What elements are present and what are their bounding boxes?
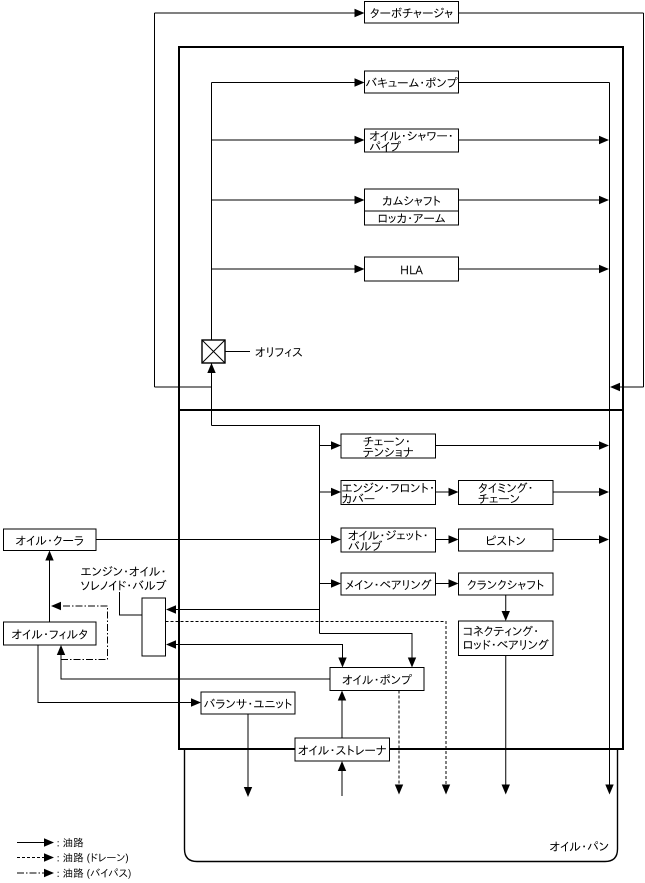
arrow pump drain into pan: [395, 785, 403, 795]
engine enclosure (thick rect): [179, 47, 623, 749]
orifice symbol: [202, 340, 225, 363]
wire chain tensioner branch: [320, 445, 333, 447]
arrow into orifice bottom: [207, 363, 215, 373]
box oil strainer: [295, 738, 390, 761]
arrow chain tensioner into return: [599, 441, 609, 449]
wire engine front cover branch: [320, 491, 333, 493]
arrow head return into oil pan: [605, 785, 613, 795]
arrow into camshaft: [355, 196, 365, 204]
arrow into vacuum pump: [355, 78, 365, 86]
wire balancer drain: [247, 714, 249, 788]
box oil jet valve: [341, 528, 436, 552]
arrow piston into return: [599, 535, 609, 543]
wire turbo feed bottom: [155, 386, 213, 388]
oil pan: [185, 750, 618, 862]
solenoid label leader: [120, 592, 143, 615]
legend dash-dot bypass arrow: [17, 872, 46, 874]
wire pan to strainer: [341, 771, 343, 797]
box piston: [459, 529, 554, 551]
box turbocharger: [365, 2, 459, 24]
arrow into turbocharger: [355, 9, 365, 17]
wire main bearing branch: [320, 583, 333, 585]
legend label oil path drain: [58, 853, 128, 864]
arrow into oil filter bottom: [57, 645, 65, 655]
wire oil cooler to oil jet valve: [96, 539, 333, 541]
arrow conrod drain into pan: [502, 785, 510, 795]
wire main gallery vertical: [319, 426, 321, 634]
arrow into solenoid valve upper: [166, 605, 176, 613]
orifice leader line: [225, 351, 250, 353]
arrow into oil shower pipe: [355, 136, 365, 144]
wire chain tensioner out: [436, 445, 601, 447]
arrow into piston: [449, 535, 459, 543]
legend label oil path bypass: [58, 868, 131, 879]
arrow control into solenoid lower: [166, 640, 176, 648]
wire main bearing to crankshaft: [436, 583, 451, 585]
wire solenoid to pump top: [175, 645, 343, 659]
wire drain from solenoid (dashed): [166, 622, 447, 786]
arrow turbo return into return line: [610, 383, 620, 391]
wire gallery elbow to pump top: [320, 634, 413, 659]
wire HLA branch: [212, 268, 357, 270]
arrow oil shower into return: [599, 136, 609, 144]
arrow HLA into return: [599, 265, 609, 273]
wire pump outlet to filter: [61, 655, 330, 680]
label oil pan: [550, 841, 608, 851]
label orifice: [256, 347, 303, 357]
wire HLA out: [459, 268, 601, 270]
box rocker arm: [365, 211, 459, 225]
wire crankshaft down: [505, 595, 507, 613]
legend solid oil-path arrow: [17, 842, 46, 844]
arrow into connecting rod bearing: [502, 611, 510, 621]
wire camshaft out: [459, 199, 601, 201]
wire oil shower branch: [212, 139, 357, 141]
box camshaft: [365, 189, 459, 211]
box chain tensioner: [341, 434, 436, 458]
box balancer unit: [201, 692, 295, 714]
wire turbo return bottom: [618, 386, 644, 388]
arrow control into pump top: [338, 658, 346, 668]
wire drain from oil pump (dashed): [398, 691, 400, 786]
wire oil shower out: [459, 139, 601, 141]
label engine oil solenoid valve: [81, 566, 166, 590]
arrow into engine front cover: [331, 488, 341, 496]
wire filter to cooler: [49, 560, 51, 622]
wire filter to balancer unit: [38, 645, 193, 703]
legend label oil path: [58, 838, 84, 847]
wire vacuum pump branch: [212, 82, 357, 84]
wire camshaft branch: [212, 199, 357, 201]
wire outer left side: [154, 13, 156, 387]
arrow camshaft into return: [599, 196, 609, 204]
thick divider head/block: [179, 409, 623, 411]
wire orifice outlet riser: [211, 363, 213, 426]
wire filter bypass (dash-dot): [60, 606, 108, 660]
arrow into oil jet valve: [331, 535, 341, 543]
arrow solenoid drain into pan: [442, 785, 450, 795]
box oil cooler: [4, 529, 97, 551]
box crankshaft: [459, 573, 554, 595]
box connecting rod bearing: [459, 621, 554, 656]
wire conrod bearing drain: [505, 656, 507, 786]
box main bearing: [341, 573, 436, 595]
wire timing chain out: [553, 491, 601, 493]
arrow bypass into cooler line: [51, 602, 61, 610]
box engine front cover: [341, 481, 436, 505]
arrow into chain tensioner: [331, 441, 341, 449]
box oil shower pipe: [365, 129, 459, 152]
arrow into oil pump bottom: [338, 691, 346, 701]
legend dashed drain arrow: [17, 857, 46, 859]
wire head supply vertical: [211, 83, 213, 341]
wire head return vertical: [609, 83, 611, 786]
box HLA: [365, 257, 459, 281]
arrow into oil cooler bottom: [45, 551, 53, 561]
arrow into crankshaft: [449, 579, 459, 587]
box vacuum pump: [365, 71, 459, 93]
arrow into HLA: [355, 265, 365, 273]
wire turbo out right: [459, 12, 644, 14]
arrow balancer drain into pan: [244, 787, 252, 797]
arrow into strainer bottom: [338, 761, 346, 771]
arrow gallery into oil pump top: [408, 658, 416, 668]
wire gallery to solenoid valve: [175, 609, 320, 611]
box oil filter: [4, 622, 97, 645]
box solenoid valve: [142, 598, 166, 656]
wire outer right side: [643, 13, 645, 387]
box timing chain: [459, 481, 554, 505]
wire vacuum pump out: [459, 82, 610, 84]
wire piston out: [553, 539, 601, 541]
arrow into main bearing: [331, 579, 341, 587]
wire turbo feed top: [155, 12, 357, 14]
arrow into timing chain: [449, 488, 459, 496]
arrow into balancer unit: [191, 698, 201, 706]
wire orifice feed horizontal: [212, 425, 321, 427]
arrow timing chain into return: [599, 488, 609, 496]
wire strainer to pump: [341, 700, 343, 739]
box oil pump: [330, 668, 424, 691]
wire front cover to timing chain: [436, 491, 451, 493]
wire oil jet valve to piston: [436, 539, 451, 541]
